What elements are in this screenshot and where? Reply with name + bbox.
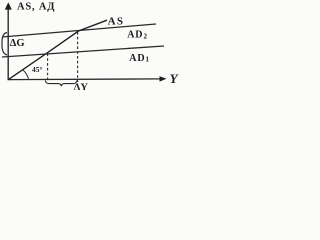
x-axis [8,78,161,81]
delta-G brace on axis [2,33,7,56]
svg-text:ΔY: ΔY [74,82,89,90]
y-axis arrowhead [5,2,12,9]
background [0,0,183,90]
AD2 curve [2,24,156,37]
svg-text:45°: 45° [32,65,43,74]
svg-text:ΔG: ΔG [10,38,25,49]
AS curve [8,20,107,80]
45-degree arc marker [23,70,29,79]
svg-text:AS, АД: AS, АД [17,1,55,12]
dashed drop line at AS x AD2 [77,32,79,82]
underbrace delta-Y [45,80,77,86]
y-axis [7,9,9,80]
dashed drop line at AS x AD1 [47,54,49,82]
svg-text:AS: AS [108,16,125,28]
svg-text:Y: Y [170,71,179,86]
x-axis arrowhead [160,76,167,81]
AD1 curve [2,46,164,57]
